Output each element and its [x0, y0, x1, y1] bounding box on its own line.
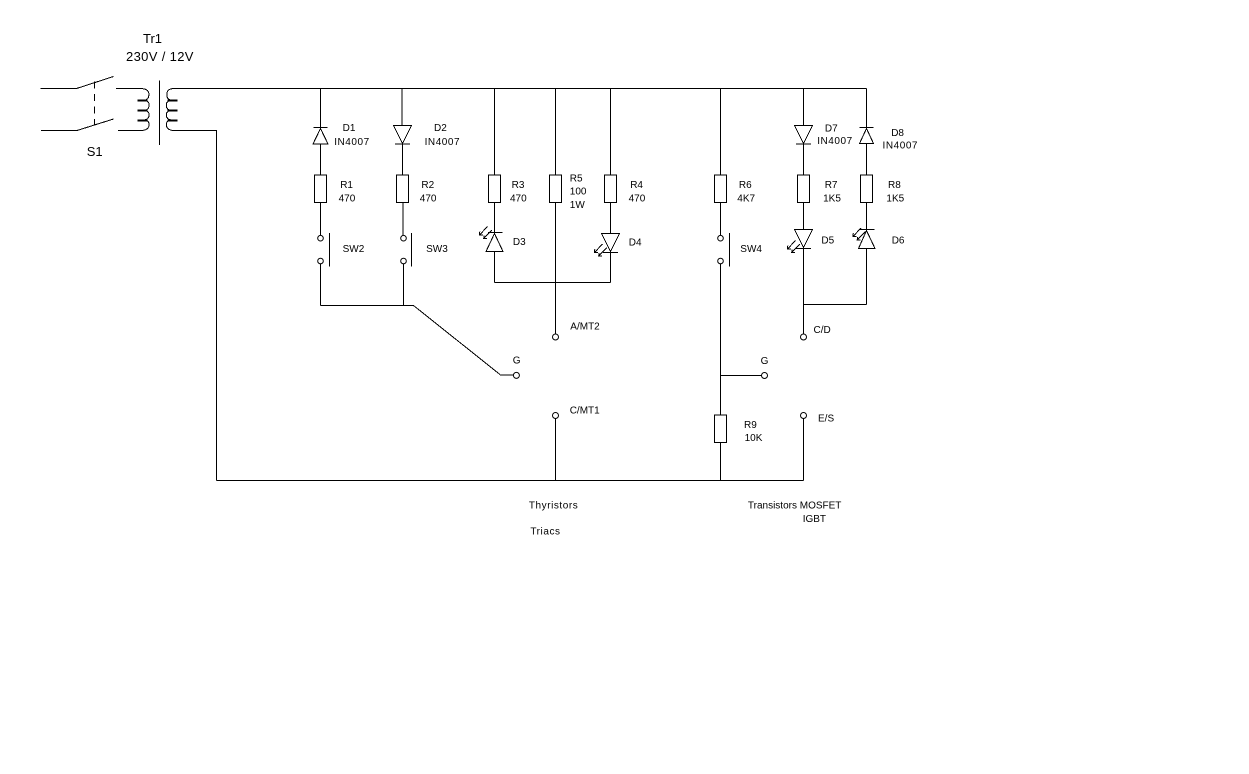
wire R5 to A/MT2 — [555, 203, 557, 335]
wire R4 branch top — [610, 89, 612, 234]
svg-text:SW4: SW4 — [740, 244, 762, 255]
resistor R8 — [861, 175, 873, 203]
node G (thyristor gate) — [513, 372, 519, 378]
node G (transistor gate) — [762, 373, 768, 379]
svg-text:1K5: 1K5 — [886, 194, 904, 205]
LED D5 — [788, 230, 813, 253]
wire D5 down — [803, 249, 805, 305]
svg-text:C/MT1: C/MT1 — [570, 405, 600, 416]
wire R1 to SW2 — [320, 203, 322, 236]
svg-text:1W: 1W — [570, 200, 586, 211]
svg-text:Triacs: Triacs — [530, 526, 560, 537]
wire D2 branch top — [401, 89, 403, 126]
node A/MT2 terminal — [553, 334, 559, 340]
svg-text:1K5: 1K5 — [823, 194, 841, 205]
wire bottom rail — [217, 480, 804, 482]
wire to C/D terminal — [803, 305, 805, 335]
svg-text:S1: S1 — [87, 144, 103, 159]
wire R6 to SW4 — [720, 203, 722, 236]
svg-text:Thyristors: Thyristors — [529, 501, 578, 512]
wire D1 to R1 — [320, 144, 322, 175]
svg-text:IGBT: IGBT — [803, 514, 826, 525]
diode D7 — [795, 126, 813, 145]
wire LED bottom link — [495, 282, 611, 284]
wire secondary bottom to left drop — [174, 131, 217, 481]
wire D3 down — [494, 252, 496, 283]
svg-text:D1: D1 — [343, 123, 356, 134]
LED D4 — [595, 234, 620, 257]
resistor R7 — [798, 175, 810, 203]
svg-text:G: G — [513, 356, 521, 367]
transformer Tr1 primary winding — [116, 89, 149, 131]
wire D8 to R8 — [866, 144, 868, 176]
node C/D terminal — [801, 334, 807, 340]
wire R3 to D3 — [494, 203, 496, 233]
wire R7 to D5 — [803, 203, 805, 230]
svg-text:470: 470 — [420, 194, 437, 205]
svg-text:230V / 12V: 230V / 12V — [126, 49, 194, 64]
wire SW3 down — [403, 264, 405, 306]
switch S1 — [41, 77, 114, 131]
svg-text:SW2: SW2 — [343, 244, 365, 255]
svg-text:4K7: 4K7 — [737, 194, 755, 205]
wire E/S to bottom rail — [803, 419, 805, 481]
svg-text:D7: D7 — [825, 123, 838, 134]
transformer Tr1 secondary winding — [166, 89, 177, 131]
svg-text:470: 470 — [629, 194, 646, 205]
wire SW2 down — [320, 264, 322, 306]
svg-text:R6: R6 — [739, 180, 752, 191]
svg-text:470: 470 — [339, 194, 356, 205]
svg-text:Tr1: Tr1 — [143, 31, 162, 46]
resistor R3 — [489, 175, 501, 203]
svg-text:R8: R8 — [888, 180, 901, 191]
transformer Tr1 core — [159, 81, 161, 146]
resistor R9 — [715, 415, 727, 443]
wire to G terminal — [500, 374, 513, 376]
svg-text:100: 100 — [570, 187, 587, 198]
svg-text:R4: R4 — [630, 180, 643, 191]
LED D6 — [853, 228, 875, 249]
wire R6 branch top — [720, 89, 722, 176]
resistor R4 — [605, 175, 617, 203]
wire R2 to SW3 — [402, 203, 404, 236]
svg-text:R2: R2 — [421, 180, 434, 191]
svg-text:IN4007: IN4007 — [334, 137, 370, 148]
switch SW4 — [718, 233, 730, 267]
LED D3 — [480, 227, 504, 252]
wire D7 to R7 — [803, 144, 805, 175]
wire D8 branch top — [866, 89, 868, 128]
diode D1 — [313, 128, 328, 145]
wire R9 to bottom rail — [720, 443, 722, 481]
svg-text:E/S: E/S — [818, 413, 834, 424]
wire SW4 down to R9 — [720, 264, 722, 415]
wire R5 branch top — [555, 89, 557, 176]
wire slanted to gate G — [414, 306, 501, 375]
wire D4 down — [610, 253, 612, 283]
svg-text:C/D: C/D — [814, 325, 831, 336]
wire D6 down — [866, 249, 868, 305]
svg-text:R3: R3 — [512, 180, 525, 191]
diode D2 — [394, 126, 412, 145]
wire R8 to D6 — [866, 203, 868, 230]
svg-text:D6: D6 — [892, 235, 905, 246]
svg-text:G: G — [761, 356, 769, 367]
svg-text:R9: R9 — [744, 420, 757, 431]
switch SW2 — [318, 233, 330, 267]
node E/S terminal — [801, 413, 807, 419]
resistor R6 — [715, 175, 727, 203]
svg-text:IN4007: IN4007 — [883, 140, 919, 151]
wire C/MT1 to bottom rail — [555, 419, 557, 481]
wire top rail — [175, 88, 867, 90]
svg-text:470: 470 — [510, 194, 527, 205]
svg-text:IN4007: IN4007 — [425, 137, 461, 148]
wire D1 branch top — [320, 89, 322, 128]
svg-text:R1: R1 — [340, 180, 353, 191]
svg-text:R5: R5 — [570, 173, 583, 184]
svg-text:D2: D2 — [434, 123, 447, 134]
svg-text:D4: D4 — [629, 237, 642, 248]
svg-text:A/MT2: A/MT2 — [570, 321, 600, 332]
svg-text:SW3: SW3 — [426, 244, 448, 255]
svg-text:D3: D3 — [513, 237, 526, 248]
wire to gate G (transistor) — [721, 375, 762, 377]
resistor R5 — [550, 175, 562, 203]
svg-text:D5: D5 — [821, 235, 834, 246]
wire D7 branch top — [803, 89, 805, 126]
svg-text:D8: D8 — [891, 128, 904, 139]
wire R3 branch top — [494, 89, 496, 176]
svg-text:R7: R7 — [825, 180, 838, 191]
wire D5-D6 bottom link — [804, 304, 867, 306]
resistor R1 — [315, 175, 327, 203]
svg-text:10K: 10K — [745, 433, 763, 444]
resistor R2 — [397, 175, 409, 203]
svg-text:IN4007: IN4007 — [817, 136, 853, 147]
diode D8 — [860, 128, 874, 144]
wire D2 to R2 — [402, 144, 404, 175]
svg-text:Transistors MOSFET: Transistors MOSFET — [748, 501, 842, 512]
node C/MT1 terminal — [553, 413, 559, 419]
switch SW3 — [401, 233, 412, 267]
wire SW2-SW3 bottom link — [321, 305, 414, 307]
